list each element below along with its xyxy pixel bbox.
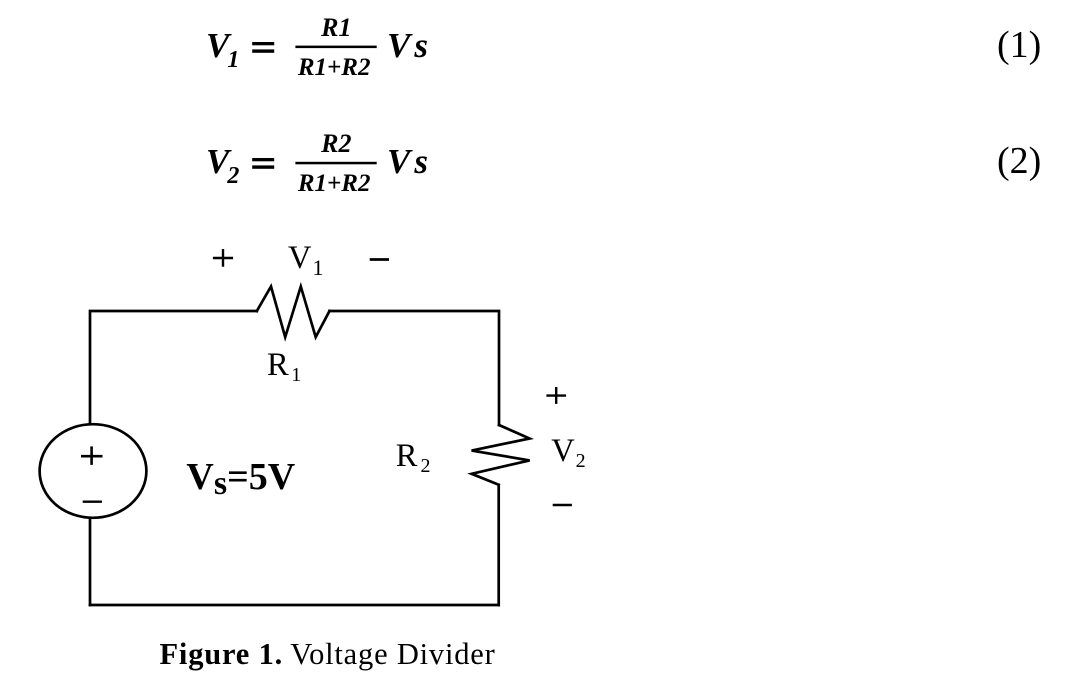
numerator R1 (eq1) [321,15,351,41]
minus sign inside source [83,501,102,503]
figure caption [160,639,284,670]
voltage source Vs (circle) [40,424,147,518]
fraction bar eq2 [295,162,376,165]
equals sign eq2 (two bars) [252,158,274,169]
wire: right-bottom segment [497,485,500,605]
label V2 (voltage across R2) [551,435,584,468]
denominator R1+R2 (eq1) [298,55,371,80]
equals sign eq1 (two bars) [252,42,274,53]
resistor R1 (horizontal zigzag) [257,287,330,338]
label V1 (voltage across R1) [288,242,322,275]
wire: top-right segment (R1 to right rail down to R2) [330,311,500,425]
wire: bottom segment [90,604,499,607]
wire: top-left segment (source top to R1) [90,311,257,423]
label Vs (eq2 RHS) [387,144,428,179]
plus sign inside source [81,446,103,465]
label V2 (eq2 LHS) [206,144,241,179]
wire: left-bottom segment (bottom rail up to source) [89,519,92,605]
plus sign (V1 polarity, left of label) [213,249,233,267]
equation number (2) [997,142,1041,180]
plus sign (V2 polarity, above label) [546,387,566,404]
label R1 (reference designator) [267,349,299,382]
numerator R2 (eq2) [321,131,351,157]
label Vs (eq1 RHS) [387,28,428,63]
figure caption text [290,639,495,670]
fraction bar eq1 [295,46,376,49]
minus sign (V2 polarity, below label) [553,504,572,507]
label V1 (eq1 LHS) [206,28,241,63]
denominator R1+R2 (eq2) [298,171,371,196]
resistor R2 (vertical zigzag) [472,425,530,485]
label R2 (reference designator) [396,440,428,473]
equation number (1) [997,26,1041,64]
label Vs=5V (source value) [186,458,295,496]
minus sign (V1 polarity, right of label) [370,258,389,261]
